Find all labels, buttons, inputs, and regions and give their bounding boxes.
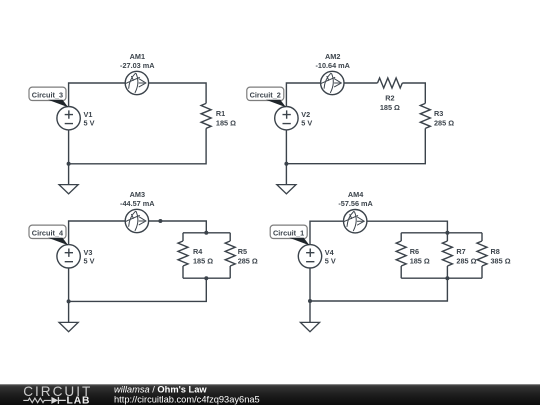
- svg-text:R6: R6: [410, 247, 419, 256]
- svg-text:5 V: 5 V: [301, 118, 312, 127]
- svg-text:willamsa / Ohm's Law: willamsa / Ohm's Law: [114, 385, 207, 395]
- svg-text:5 V: 5 V: [84, 118, 95, 127]
- svg-text:Circuit_2: Circuit_2: [250, 91, 281, 100]
- svg-text:5 V: 5 V: [84, 256, 95, 265]
- svg-text:R4: R4: [193, 247, 203, 256]
- svg-text:R1: R1: [216, 109, 225, 118]
- svg-text:185 Ω: 185 Ω: [410, 257, 430, 266]
- svg-text:http://circuitlab.com/c4fzq93a: http://circuitlab.com/c4fzq93ay6na5: [114, 394, 260, 404]
- svg-text:-44.57 mA: -44.57 mA: [120, 199, 155, 208]
- svg-text:285 Ω: 285 Ω: [456, 257, 476, 266]
- svg-text:Circuit_1: Circuit_1: [273, 229, 304, 238]
- svg-text:-27.03 mA: -27.03 mA: [120, 61, 155, 70]
- svg-text:R5: R5: [238, 247, 247, 256]
- svg-text:R8: R8: [491, 247, 500, 256]
- svg-text:185 Ω: 185 Ω: [193, 257, 213, 266]
- svg-text:R3: R3: [434, 109, 443, 118]
- svg-text:AM1: AM1: [130, 52, 145, 61]
- svg-text:R7: R7: [456, 247, 465, 256]
- svg-text:385 Ω: 385 Ω: [491, 257, 511, 266]
- svg-text:AM2: AM2: [325, 52, 340, 61]
- svg-text:R2: R2: [385, 93, 394, 102]
- svg-text:-57.56 mA: -57.56 mA: [338, 199, 373, 208]
- svg-text:AM3: AM3: [130, 190, 145, 199]
- svg-text:285 Ω: 285 Ω: [434, 119, 454, 128]
- svg-text:Circuit_3: Circuit_3: [32, 91, 63, 100]
- svg-text:LAB: LAB: [67, 396, 91, 405]
- svg-text:185 Ω: 185 Ω: [216, 118, 236, 127]
- svg-text:Circuit_4: Circuit_4: [32, 229, 64, 238]
- svg-text:5 V: 5 V: [325, 256, 336, 265]
- svg-text:285 Ω: 285 Ω: [238, 257, 258, 266]
- svg-text:-10.64 mA: -10.64 mA: [315, 61, 350, 70]
- svg-text:185 Ω: 185 Ω: [380, 103, 400, 112]
- svg-text:AM4: AM4: [348, 190, 364, 199]
